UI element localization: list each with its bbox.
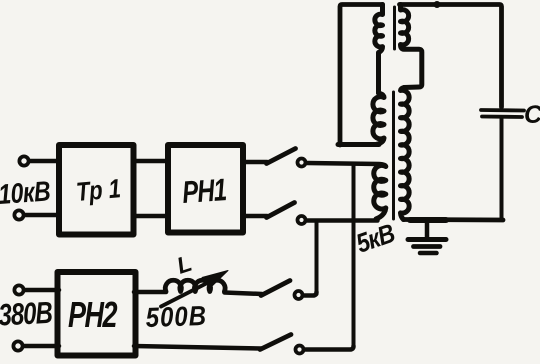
switch S1 blade <box>267 149 296 164</box>
ground bar1 <box>408 237 446 242</box>
wire <box>25 288 59 293</box>
inductor L coil <box>165 280 225 291</box>
wire vertical junction x316 <box>315 221 319 294</box>
regulator box RN1 <box>168 145 243 233</box>
ground stem <box>425 221 430 238</box>
switch S2 contact <box>298 216 306 224</box>
switch S1 contact <box>298 159 306 167</box>
wire RN2 to S4 <box>134 346 261 349</box>
switch S4 blade <box>260 335 291 350</box>
wire capacitor to rail <box>500 119 504 219</box>
svg-text:Тр 1: Тр 1 <box>75 174 122 207</box>
winding primary W5 (5kV) <box>374 165 386 219</box>
wire <box>134 214 168 219</box>
svg-text:500В: 500В <box>145 301 207 333</box>
terminal input 10kV upper <box>19 156 28 165</box>
regulator box RN2 <box>58 272 136 356</box>
wire S4 to vertical <box>306 346 354 350</box>
wire S3 to vertical <box>305 292 317 296</box>
core upper <box>393 7 396 49</box>
junction dot on top wire <box>434 1 441 8</box>
svg-text:380В: 380В <box>0 295 53 332</box>
wire inductor to S3 <box>224 293 262 295</box>
winding upper-left W1 <box>375 5 383 94</box>
wire ground rail right <box>404 217 504 222</box>
HV transformer bottom-left bar <box>338 142 379 147</box>
wire <box>25 213 59 218</box>
svg-text:РН2: РН2 <box>68 294 118 335</box>
switch S3 blade <box>261 281 290 296</box>
wire <box>244 160 267 165</box>
terminal input 10kV lower <box>14 210 23 219</box>
svg-text:C: C <box>524 101 540 129</box>
wire ground rail left <box>308 218 378 223</box>
svg-text:РН1: РН1 <box>181 172 227 210</box>
wire <box>30 159 59 164</box>
wire <box>134 159 168 164</box>
HV transformer top wire right <box>400 5 502 108</box>
wire node to primary winding top <box>308 163 386 167</box>
svg-text:5кВ: 5кВ <box>353 219 399 259</box>
wire vertical junction x353 <box>352 164 356 347</box>
inductor arrow shaft <box>161 280 213 307</box>
capacitor C top plate <box>481 108 524 112</box>
winding lower-right W4 <box>401 88 410 220</box>
wire <box>244 214 267 219</box>
transformer box Tr1 <box>59 145 134 235</box>
ground bar2 <box>414 244 441 249</box>
ground tee on rail <box>410 217 446 223</box>
svg-text:10кВ: 10кВ <box>0 176 51 210</box>
svg-text:L: L <box>174 250 195 279</box>
switch S2 blade <box>267 203 295 218</box>
ground bar3 <box>420 251 437 256</box>
terminal input 380V lower <box>13 341 22 350</box>
terminal input 380V upper <box>14 285 23 294</box>
HV transformer top wire left <box>340 5 383 146</box>
switch S3 contact <box>295 291 303 299</box>
switch S4 contact <box>296 346 304 354</box>
core lower <box>392 92 395 219</box>
winding upper-right W3 with jog <box>401 5 422 88</box>
wire <box>24 344 59 349</box>
wire RN2 to inductor <box>134 290 166 295</box>
capacitor C bottom plate <box>482 115 522 119</box>
winding middle-left W2 <box>373 93 384 145</box>
inductor arrow head <box>202 271 228 289</box>
